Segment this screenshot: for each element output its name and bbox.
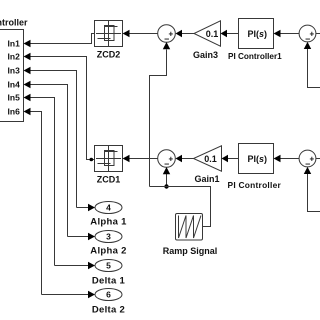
svg-text:ZCD2: ZCD2 [97,50,121,60]
svg-text:In6: In6 [8,106,21,116]
wire: alpha2 signal into controller In4 and outport 3 [24,81,96,240]
wire: feedback from right edge up into S4 bottom (minus) [304,167,320,212]
svg-text:Controller: Controller [0,18,28,28]
gain Gain3 (0.1) [193,21,221,60]
svg-text:0.1: 0.1 [204,154,217,164]
outport 3 (Alpha 2) [90,231,126,257]
svg-text:Alpha 2: Alpha 2 [90,246,126,257]
Ramp Signal source block [163,214,218,257]
wire: S2 output to PI Controller1 input [274,30,300,37]
svg-text:–: – [305,33,310,43]
wire: Ramp Signal output to carrier rail [150,187,211,227]
wire: carrier branch up into S1 bottom (minus) [150,42,171,187]
sum junction S3 (row2 left) [158,150,176,169]
svg-text:In4: In4 [8,79,21,89]
wire: S3 output to ZCD1 input [123,155,159,162]
wire: Gain1 output to S3 plus input [176,155,194,162]
wire: ZCD1 output to controller In2 [24,53,95,160]
svg-text:In1: In1 [8,38,21,48]
wire: Gain3 output to S1 plus input [176,30,195,37]
svg-text:PI(s): PI(s) [248,154,268,164]
junction: dot on ZCD1 output wire [90,158,94,162]
PI Controller block [228,144,282,191]
svg-text:+: + [310,154,315,163]
outport 5 (Delta 1) [92,260,126,287]
junction: carrier branch dot [164,184,168,188]
ZCD1 block [95,146,123,185]
svg-text:+: + [169,154,174,163]
ZCD2 block [95,21,123,60]
svg-text:–: – [164,33,169,43]
svg-text:4: 4 [106,203,111,213]
svg-text:Gain3: Gain3 [193,50,218,60]
svg-text:In2: In2 [8,52,21,62]
svg-text:ZCD1: ZCD1 [97,175,121,185]
svg-text:5: 5 [106,261,111,271]
svg-text:In3: In3 [8,65,21,75]
wire: right edge into S4 right input [316,158,320,160]
svg-text:In5: In5 [8,93,21,103]
sum junction S2 (row1 right) [299,25,316,43]
wire: S4 output to PI Controller input [274,155,300,162]
wire: PI Controller output to Gain1 input [222,155,239,162]
controller subsystem block (clipped at left edge) [0,18,28,122]
wire: S1 output to ZCD2 input [123,30,159,37]
svg-text:3: 3 [106,232,111,242]
svg-text:0.1: 0.1 [206,29,219,39]
wire: ZCD2 output to controller In1 [24,34,95,48]
svg-text:+: + [169,29,174,38]
sum junction S4 (row2 right) [299,150,316,168]
wire: carrier branch up into S3 bottom (minus) [163,167,170,187]
svg-text:Ramp Signal: Ramp Signal [163,246,218,256]
gain Gain1 (0.1) [194,146,222,184]
outport 4 (Alpha 1) [90,202,127,228]
svg-text:PI(s): PI(s) [248,29,268,39]
svg-text:Alpha 1: Alpha 1 [90,217,127,228]
wire: delta2 signal into controller In6 and outport 6 [24,108,96,298]
wire: alpha1 signal into controller In3 and outport 4 [24,67,96,211]
wire: PI Controller1 output to Gain3 input [221,30,239,37]
svg-text:Gain1: Gain1 [194,174,219,184]
svg-text:Delta 1: Delta 1 [92,276,126,287]
svg-text:6: 6 [106,290,111,300]
sum junction S1 (row1 left) [158,25,176,44]
svg-text:–: – [164,158,169,168]
svg-text:Delta 2: Delta 2 [92,305,125,316]
outport 6 (Delta 2) [92,289,125,316]
svg-text:PI Controller: PI Controller [228,180,282,190]
wire: right edge into S2 right input [316,33,320,35]
PI Controller1 block [228,19,282,62]
wire: feedback from right edge up into S2 bottom (minus) [304,42,320,88]
svg-text:–: – [305,158,310,168]
svg-text:+: + [310,29,315,38]
svg-text:PI Controller1: PI Controller1 [228,52,282,61]
wire: delta1 signal into controller In5 and outport 5 [24,94,96,269]
